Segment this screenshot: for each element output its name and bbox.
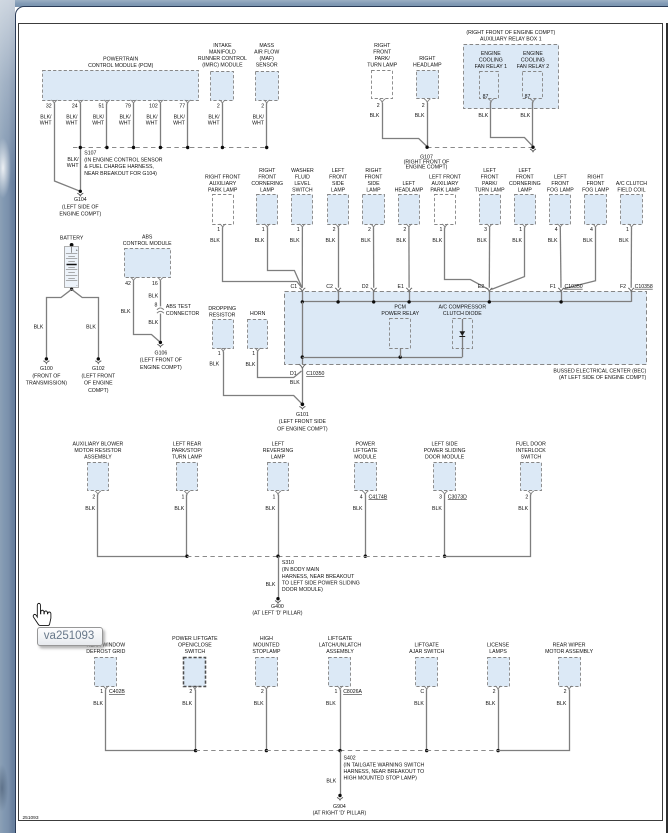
svg-text:2: 2 — [377, 103, 380, 109]
svg-text:LEFT: LEFT — [483, 168, 497, 174]
svg-text:BLK: BLK — [255, 238, 265, 244]
svg-text:BLK: BLK — [210, 238, 220, 244]
svg-text:SWITCH: SWITCH — [292, 187, 313, 193]
relay box: AUXILIARY RELAY BOX (RIGHT FRONT OF ENGINE COMPT) — [464, 30, 559, 109]
svg-text:RESISTOR: RESISTOR — [209, 312, 236, 318]
svg-text:ABS TEST: ABS TEST — [166, 304, 192, 310]
ground G101 — [277, 403, 328, 433]
svg-text:FLUID: FLUID — [295, 174, 310, 180]
svg-text:PARK LAMP: PARK LAMP — [208, 187, 238, 193]
svg-text:DROPPING: DROPPING — [208, 306, 236, 312]
wire: left side power sliding door module to splice bus — [432, 495, 446, 558]
component: REAR WIPER MOTOR ASSEMBLY — [545, 643, 593, 696]
svg-text:87: 87 — [483, 94, 489, 100]
label: BUSSED ELECTRICAL CENTER (BEC) caption — [553, 369, 646, 382]
svg-text:C: C — [420, 689, 424, 695]
svg-text:HARNESS, NEAR BREAKOUT: HARNESS, NEAR BREAKOUT — [282, 574, 355, 580]
svg-text:1: 1 — [440, 227, 443, 233]
wire: MAF sensor pin 2 to splice S107 — [252, 104, 266, 148]
svg-text:DOOR MODULE): DOOR MODULE) — [282, 587, 323, 593]
svg-text:LICENSE: LICENSE — [487, 643, 510, 649]
wire: BEC internal ground bus (lower) — [302, 355, 462, 358]
svg-text:BLK: BLK — [548, 238, 558, 244]
svg-text:C2: C2 — [326, 284, 333, 290]
svg-text:AUXILIARY BLOWER: AUXILIARY BLOWER — [72, 441, 123, 447]
component: LEFT FRONT CORNERING LAMP — [509, 168, 541, 233]
ground G104 — [59, 190, 101, 218]
connector pin C2 at BEC top edge — [326, 284, 341, 302]
svg-text:4: 4 — [360, 494, 363, 500]
svg-text:CONTROL MODULE: CONTROL MODULE — [123, 241, 172, 247]
svg-text:STOPLAMP: STOPLAMP — [252, 649, 281, 655]
svg-text:BLK: BLK — [518, 506, 528, 512]
svg-text:LAMP: LAMP — [260, 187, 275, 193]
svg-text:ENGINE COMPT): ENGINE COMPT) — [406, 165, 448, 171]
module U1: POWERTRAIN CONTROL MODULE (PCM) — [43, 57, 199, 110]
svg-text:C1: C1 — [290, 284, 297, 290]
svg-text:1: 1 — [297, 227, 300, 233]
connector pin D2 at BEC top edge — [362, 284, 377, 302]
component: LICENSE LAMPS — [487, 643, 510, 696]
svg-text:BLK: BLK — [209, 362, 219, 368]
svg-text:(LEFT FRONT SIDE: (LEFT FRONT SIDE — [279, 419, 327, 425]
connector pin E2 at BEC top edge — [478, 284, 493, 302]
svg-text:DOOR MODULE: DOOR MODULE — [425, 454, 465, 460]
svg-text:LEFT: LEFT — [272, 441, 286, 447]
svg-text:OF ENGINE COMPT): OF ENGINE COMPT) — [277, 426, 328, 432]
component: RIGHT FRONT CORNERING LAMP — [251, 168, 283, 233]
svg-text:ENGINE: ENGINE — [481, 51, 501, 57]
relay K2: ENGINE COOLING FAN RELAY 2 — [517, 51, 550, 102]
svg-text:AUXILIARY RELAY BOX 1: AUXILIARY RELAY BOX 1 — [480, 36, 542, 42]
component: LEFT REAR PARK/STOP/ TURN LAMP — [172, 441, 203, 500]
svg-text:8: 8 — [155, 303, 158, 309]
wire: PCM pin 79 to splice S107 — [119, 104, 134, 148]
sensor: MASS AIR FLOW (MAF) SENSOR — [254, 43, 279, 110]
label: splice S402 name — [344, 756, 425, 782]
wire: splice S402 to G904 — [326, 751, 340, 796]
svg-text:TURN LAMP: TURN LAMP — [367, 63, 398, 69]
label: splice S107 name — [84, 151, 162, 177]
svg-text:2: 2 — [217, 104, 220, 110]
svg-text:BLK: BLK — [182, 701, 192, 707]
svg-text:DEFROST GRID: DEFROST GRID — [86, 649, 125, 655]
wire: left front fog lamp to BEC — [548, 228, 561, 288]
wire: auxiliary blower motor resistor to splice bus — [85, 495, 187, 557]
svg-text:CONTROL MODULE (PCM): CONTROL MODULE (PCM) — [88, 63, 154, 69]
svg-text:RIGHT: RIGHT — [419, 56, 436, 62]
svg-text:FRONT: FRONT — [551, 181, 570, 187]
svg-text:LIFTGATE: LIFTGATE — [328, 636, 353, 642]
svg-text:ENGINE COMPT): ENGINE COMPT) — [140, 365, 182, 371]
svg-text:WHT: WHT — [119, 121, 132, 127]
wire: ABS test connector to G106 — [148, 314, 160, 343]
svg-text:SIDE: SIDE — [367, 181, 380, 187]
svg-text:INTERLOCK: INTERLOCK — [516, 448, 546, 454]
svg-text:SWITCH: SWITCH — [185, 649, 206, 655]
svg-text:C8026A: C8026A — [343, 689, 362, 695]
svg-text:BLK: BLK — [370, 113, 380, 119]
svg-text:WHT: WHT — [173, 121, 186, 127]
wire: PCM pin 24 through splice S107 to G104 — [66, 104, 81, 192]
wire: engine cooling fan relay 2 pin 87 to G107 — [520, 102, 532, 147]
svg-text:POWERTRAIN: POWERTRAIN — [103, 57, 138, 63]
svg-text:77: 77 — [179, 104, 185, 110]
svg-text:C3073D: C3073D — [448, 494, 467, 500]
svg-text:PCM: PCM — [394, 305, 406, 311]
svg-text:(IN BODY MAIN: (IN BODY MAIN — [282, 567, 320, 573]
svg-text:PARK LAMP: PARK LAMP — [430, 187, 460, 193]
svg-text:BLK/: BLK/ — [93, 115, 105, 121]
wire: liftgate ajar switch to splice bus — [414, 690, 428, 753]
svg-text:REVERSING: REVERSING — [263, 448, 294, 454]
svg-text:MASS: MASS — [259, 43, 274, 49]
svg-text:BLK: BLK — [520, 113, 530, 119]
svg-text:2: 2 — [422, 103, 425, 109]
svg-text:BLK: BLK — [326, 778, 336, 784]
svg-text:BLK: BLK — [556, 701, 566, 707]
svg-text:LEVEL: LEVEL — [294, 181, 310, 187]
svg-text:LEFT: LEFT — [554, 174, 568, 180]
svg-text:1: 1 — [273, 494, 276, 500]
svg-text:HIGH MOUNTED STOP LAMP): HIGH MOUNTED STOP LAMP) — [344, 776, 418, 782]
svg-text:REAR WIPER: REAR WIPER — [553, 643, 586, 649]
svg-text:BLK: BLK — [325, 238, 335, 244]
lamp: RIGHT FRONT PARK/TURN LAMP — [367, 43, 398, 109]
svg-text:COOLING: COOLING — [479, 57, 503, 63]
ground G106 — [140, 341, 182, 371]
svg-text:1: 1 — [217, 227, 220, 233]
ground G107 (dashed tie between junctions) — [404, 146, 536, 171]
svg-text:(AT LEFT SIDE OF ENGINE COMPT): (AT LEFT SIDE OF ENGINE COMPT) — [559, 375, 647, 381]
svg-text:ASSEMBLY: ASSEMBLY — [326, 649, 354, 655]
wire: PCM pin 51 to splice S107 — [92, 104, 106, 148]
svg-text:BLK: BLK — [353, 506, 363, 512]
svg-text:MOUNTED: MOUNTED — [253, 643, 279, 649]
connector: ABS TEST CONNECTOR (inline) — [157, 304, 200, 317]
svg-text:WHT: WHT — [92, 121, 105, 127]
wire: right front auxiliary park lamp to BEC — [210, 228, 302, 289]
svg-text:LAMP: LAMP — [271, 454, 286, 460]
wire: left front side lamp to BEC — [325, 228, 338, 288]
wire: left rear park/stop/turn lamp to splice bus — [174, 495, 188, 558]
svg-text:BLK: BLK — [290, 380, 300, 386]
svg-text:TURN LAMP: TURN LAMP — [475, 187, 506, 193]
svg-text:2: 2 — [261, 104, 264, 110]
svg-text:BLK: BLK — [432, 506, 442, 512]
svg-text:SWITCH: SWITCH — [521, 454, 542, 460]
module: INTAKE MANIFOLD RUNNER CONTROL (IMRC) MODULE — [198, 43, 247, 110]
wire: left reversing lamp to splice S310 — [265, 495, 278, 557]
wire: power liftgate open/close switch to splice bus — [182, 690, 197, 753]
component: RIGHT FRONT SIDE LAMP — [363, 168, 385, 233]
svg-text:A/C COMPRESSOR: A/C COMPRESSOR — [439, 305, 487, 311]
component: LEFT FRONT SIDE LAMP — [328, 168, 349, 233]
wire: left front park/turn lamp to BEC — [477, 228, 490, 288]
wire: battery negative to G102 — [72, 289, 99, 359]
svg-text:LEFT: LEFT — [403, 181, 417, 187]
component: LEFT SIDE POWER SLIDING DOOR MODULE — [424, 441, 467, 500]
connector pin F2 at BEC top edge — [620, 284, 653, 302]
splice S107 bus (dashed) with junction dots — [73, 146, 268, 149]
svg-text:WHT: WHT — [208, 121, 221, 127]
lamp: RIGHT HEADLAMP — [413, 56, 442, 109]
svg-text:G101: G101 — [296, 412, 309, 418]
svg-text:PARK/: PARK/ — [375, 56, 391, 62]
svg-text:BLK: BLK — [290, 238, 300, 244]
svg-text:FAN RELAY 1: FAN RELAY 1 — [475, 64, 508, 70]
wire: IMRC module pin 2 to splice S107 — [208, 104, 223, 148]
svg-text:BLK: BLK — [477, 238, 487, 244]
svg-text:(AT RIGHT 'D' PILLAR): (AT RIGHT 'D' PILLAR) — [313, 811, 367, 817]
component: RIGHT FRONT FOG LAMP — [582, 174, 609, 233]
wire: splice S310 to G400 — [266, 556, 279, 599]
svg-text:OF ENGINE: OF ENGINE — [84, 381, 113, 387]
svg-text:LEFT: LEFT — [518, 168, 532, 174]
svg-text:(AT LEFT 'D' PILLAR): (AT LEFT 'D' PILLAR) — [252, 611, 302, 617]
svg-text:(LEFT FRONT: (LEFT FRONT — [81, 373, 115, 379]
svg-text:BLK: BLK — [148, 320, 158, 326]
svg-text:BLK: BLK — [254, 701, 264, 707]
wire: right front cornering lamp to BEC — [255, 228, 302, 288]
svg-text:HORN: HORN — [250, 311, 266, 317]
svg-text:POWER RELAY: POWER RELAY — [381, 311, 419, 317]
svg-text:BLK/: BLK/ — [253, 115, 265, 121]
wire: high mounted stoplamp to splice bus — [254, 690, 268, 753]
svg-text:2: 2 — [333, 227, 336, 233]
svg-text:BLK: BLK — [34, 325, 44, 331]
svg-text:1: 1 — [335, 689, 338, 695]
svg-text:2: 2 — [368, 227, 371, 233]
svg-text:2: 2 — [261, 689, 264, 695]
svg-text:RIGHT FRONT: RIGHT FRONT — [205, 174, 241, 180]
svg-text:FRONT: FRONT — [373, 50, 392, 56]
svg-text:2: 2 — [564, 689, 567, 695]
svg-text:1: 1 — [182, 494, 185, 500]
svg-text:COMPT): COMPT) — [88, 388, 109, 394]
component: LEFT HEADLAMP — [395, 181, 424, 233]
svg-text:BLK: BLK — [93, 701, 103, 707]
svg-text:F1: F1 — [550, 284, 556, 290]
svg-text:WHT: WHT — [67, 163, 80, 169]
svg-text:2: 2 — [92, 494, 95, 500]
component: LEFT REVERSING LAMP — [263, 441, 294, 500]
svg-text:BLK: BLK — [619, 238, 629, 244]
svg-text:RIGHT: RIGHT — [587, 174, 604, 180]
wire: rear window defrost grid to splice bus — [93, 690, 195, 751]
svg-text:ENGINE COMPT): ENGINE COMPT) — [59, 212, 101, 218]
svg-text:& FUEL CHARGE HARNESS,: & FUEL CHARGE HARNESS, — [84, 164, 154, 170]
wire: right front fog lamp to BEC — [564, 228, 596, 289]
svg-text:LEFT: LEFT — [332, 168, 346, 174]
svg-text:POWER SLIDING: POWER SLIDING — [424, 448, 466, 454]
svg-text:LAMP: LAMP — [331, 187, 346, 193]
svg-text:MOTOR RESISTOR: MOTOR RESISTOR — [74, 448, 121, 454]
wire: BEC internal ground bus (upper) — [301, 300, 632, 303]
svg-text:WASHER: WASHER — [291, 168, 314, 174]
component: FUEL DOOR INTERLOCK SWITCH — [516, 441, 546, 500]
svg-text:LAMP: LAMP — [366, 187, 381, 193]
svg-text:HEADLAMP: HEADLAMP — [395, 187, 424, 193]
svg-text:2: 2 — [189, 689, 192, 695]
svg-text:G104: G104 — [74, 197, 87, 203]
svg-text:G400: G400 — [271, 604, 284, 610]
svg-text:WHT: WHT — [146, 121, 159, 127]
module: BUSSED ELECTRICAL CENTER (BEC) box — [285, 292, 647, 365]
svg-text:BLK: BLK — [266, 582, 276, 588]
svg-text:AUXILIARY: AUXILIARY — [209, 181, 237, 187]
svg-text:FRONT: FRONT — [481, 174, 500, 180]
svg-text:POWER LIFTGATE: POWER LIFTGATE — [172, 636, 218, 642]
svg-text:3: 3 — [439, 494, 442, 500]
svg-text:BLK: BLK — [414, 701, 424, 707]
resistor: DROPPING RESISTOR — [208, 306, 236, 357]
svg-text:(FRONT OF: (FRONT OF — [32, 373, 60, 379]
module: ABS CONTROL MODULE — [123, 235, 172, 287]
horn: HORN — [248, 311, 268, 357]
svg-text:16: 16 — [152, 281, 158, 287]
svg-text:OPEN/CLOSE: OPEN/CLOSE — [178, 643, 212, 649]
svg-text:(LEFT SIDE OF: (LEFT SIDE OF — [62, 204, 99, 210]
component: POWER LIFTGATE MODULE — [353, 441, 388, 500]
wire: left front cornering lamp to BEC — [491, 228, 524, 290]
svg-text:1: 1 — [626, 227, 629, 233]
svg-text:C4174B: C4174B — [369, 494, 388, 500]
svg-text:CONNECTOR: CONNECTOR — [166, 311, 200, 317]
svg-text:BLK: BLK — [86, 325, 96, 331]
svg-text:BLK: BLK — [512, 238, 522, 244]
wire: license lamps to splice bus — [485, 690, 499, 753]
relay: PCM POWER RELAY (in BEC) — [381, 305, 419, 358]
svg-text:D2: D2 — [362, 284, 369, 290]
wire: left headlamp to BEC — [396, 228, 409, 288]
svg-text:BLK/: BLK/ — [208, 115, 220, 121]
svg-text:S310: S310 — [282, 560, 294, 566]
ground G400 — [252, 597, 302, 617]
connector pin E1 at BEC top edge — [398, 284, 413, 302]
svg-text:C10358: C10358 — [635, 284, 653, 290]
svg-text:FRONT: FRONT — [587, 181, 606, 187]
svg-text:AUXILIARY: AUXILIARY — [431, 181, 459, 187]
svg-text:ASSEMBLY: ASSEMBLY — [84, 454, 112, 460]
component: RIGHT FRONT AUXILIARY PARK LAMP — [205, 174, 241, 233]
svg-text:24: 24 — [72, 104, 78, 110]
svg-text:HIGH: HIGH — [260, 636, 273, 642]
label: splice S310 name — [282, 560, 360, 593]
svg-text:PARK/STOP/: PARK/STOP/ — [172, 448, 203, 454]
svg-text:251093: 251093 — [23, 815, 39, 821]
svg-text:CORNERING: CORNERING — [509, 181, 541, 187]
wire: a/c clutch field coil to BEC — [619, 228, 632, 288]
svg-text:BUSSED ELECTRICAL CENTER (BEC): BUSSED ELECTRICAL CENTER (BEC) — [553, 369, 646, 375]
svg-text:BLK: BLK — [265, 506, 275, 512]
svg-text:BLK/: BLK/ — [66, 115, 78, 121]
svg-text:POWER: POWER — [355, 441, 375, 447]
svg-text:G904: G904 — [333, 804, 346, 810]
svg-text:BLK: BLK — [485, 701, 495, 707]
svg-text:BLK: BLK — [121, 309, 131, 315]
splice S402 bus dashed segments — [196, 749, 499, 752]
component: WASHER FLUID LEVEL SWITCH — [291, 168, 314, 233]
svg-text:2: 2 — [403, 227, 406, 233]
svg-text:FIELD COIL: FIELD COIL — [617, 187, 645, 193]
svg-text:SIDE: SIDE — [332, 181, 345, 187]
battery B1: BATTERY — [60, 236, 84, 291]
svg-text:MANIFOLD: MANIFOLD — [209, 50, 236, 56]
wire: horn to BEC D1 node — [245, 352, 301, 378]
svg-text:G100: G100 — [40, 366, 53, 372]
svg-text:1: 1 — [218, 351, 221, 357]
svg-text:(IN ENGINE CONTROL SENSOR: (IN ENGINE CONTROL SENSOR — [84, 157, 162, 163]
wire: fuel door interlock switch to splice bus — [445, 495, 531, 557]
svg-text:BLK/: BLK/ — [67, 157, 79, 163]
wire: PCM pin 32 to G104 — [40, 104, 81, 192]
svg-text:HARNESS, NEAR BREAKOUT TO: HARNESS, NEAR BREAKOUT TO — [344, 769, 425, 775]
connector pin D1 at BEC bottom edge — [290, 364, 325, 386]
ground G102 — [81, 357, 115, 394]
component: A/C CLUTCH FIELD COIL — [616, 181, 647, 233]
svg-text:BLK: BLK — [174, 506, 184, 512]
svg-text:RIGHT: RIGHT — [374, 43, 391, 49]
svg-text:(MAF): (MAF) — [259, 56, 274, 62]
svg-text:C402B: C402B — [109, 689, 125, 695]
svg-text:FOG LAMP: FOG LAMP — [547, 187, 574, 193]
svg-text:TRANSMISSION): TRANSMISSION) — [26, 381, 67, 387]
svg-text:COOLING: COOLING — [521, 57, 545, 63]
wire: ABS pin 42 to G106 — [121, 281, 161, 343]
svg-text:(LEFT FRONT OF: (LEFT FRONT OF — [140, 358, 182, 364]
svg-text:FRONT: FRONT — [365, 174, 384, 180]
svg-text:87: 87 — [525, 94, 531, 100]
wire: right front park/turn lamp to G107 — [370, 103, 428, 147]
svg-text:TO LEFT SIDE POWER SLIDING: TO LEFT SIDE POWER SLIDING — [282, 580, 360, 586]
svg-text:102: 102 — [149, 104, 158, 110]
component: LIFTGATE LATCH/UNLATCH ASSEMBLY — [319, 636, 363, 695]
svg-text:BLK/: BLK/ — [40, 115, 52, 121]
svg-text:RIGHT: RIGHT — [365, 168, 382, 174]
svg-text:BLK: BLK — [415, 113, 425, 119]
svg-text:FUEL DOOR: FUEL DOOR — [516, 441, 546, 447]
svg-text:INTAKE: INTAKE — [213, 43, 232, 49]
svg-text:BLK: BLK — [583, 238, 593, 244]
svg-text:CORNERING: CORNERING — [251, 181, 283, 187]
svg-text:A/C CLUTCH: A/C CLUTCH — [616, 181, 647, 187]
svg-text:F2: F2 — [620, 284, 626, 290]
svg-text:FAN RELAY 2: FAN RELAY 2 — [517, 64, 550, 70]
wire: power liftgate module to splice bus — [353, 495, 367, 558]
wire: battery negative to G100 — [34, 289, 72, 359]
svg-text:LIFTGATE: LIFTGATE — [414, 643, 439, 649]
svg-text:FOG LAMP: FOG LAMP — [582, 187, 609, 193]
wire: liftgate latch/unlatch assembly to splice S402 — [326, 690, 341, 751]
svg-text:E2: E2 — [478, 284, 484, 290]
wire: ABS pin 16 to ABS test connector — [148, 281, 160, 309]
component: LIFTGATE AJAR SWITCH — [409, 643, 444, 696]
label: diagram id 251093 — [23, 815, 39, 821]
svg-text:HEADLAMP: HEADLAMP — [413, 63, 442, 69]
svg-text:3: 3 — [484, 227, 487, 233]
svg-text:AIR FLOW: AIR FLOW — [254, 50, 279, 56]
svg-text:AJAR SWITCH: AJAR SWITCH — [409, 649, 444, 655]
svg-text:BLK: BLK — [245, 362, 255, 368]
svg-text:WHT: WHT — [66, 121, 79, 127]
svg-text:LAMP: LAMP — [518, 187, 533, 193]
wire: rear wiper motor assembly to splice bus — [498, 690, 569, 751]
svg-text:32: 32 — [46, 104, 52, 110]
svg-text:4: 4 — [555, 227, 558, 233]
svg-text:TURN LAMP: TURN LAMP — [172, 454, 203, 460]
svg-text:BLK: BLK — [478, 113, 488, 119]
